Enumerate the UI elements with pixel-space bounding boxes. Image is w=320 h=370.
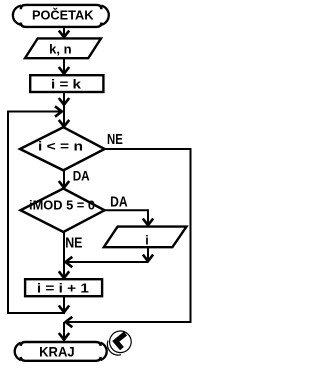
wire to second decision	[63, 170, 65, 187]
svg-text:NE: NE	[65, 235, 82, 252]
wire to k,n	[63, 27, 65, 37]
svg-text:POČETAK: POČETAK	[32, 8, 94, 23]
decision iMOD 5 = 0	[21, 189, 105, 233]
svg-text:KRAJ: KRAJ	[39, 343, 75, 359]
svg-text:i < = n: i < = n	[38, 140, 83, 154]
terminator KRAJ	[15, 342, 107, 361]
NE wire to KRAJ	[59, 149, 191, 340]
svg-text:k, n: k, n	[49, 41, 72, 56]
input k, n	[25, 38, 101, 58]
wire i=k to junction	[63, 92, 65, 112]
svg-text:iMOD 5 = 0: iMOD 5 = 0	[29, 198, 95, 212]
loop-back wire	[8, 106, 69, 313]
svg-text:NE: NE	[107, 131, 123, 148]
node junction above condition	[63, 112, 65, 127]
terminator POCETAK	[13, 5, 109, 27]
output i	[104, 227, 187, 248]
process i = i + 1	[25, 279, 102, 296]
decision i <= n	[20, 127, 105, 170]
wire to i=k	[63, 58, 65, 73]
process i = k	[30, 75, 103, 92]
svg-text:i: i	[145, 233, 148, 247]
svg-text:i = i + 1: i = i + 1	[37, 282, 89, 296]
DA wire to output	[105, 210, 154, 225]
svg-text:DA: DA	[110, 193, 128, 210]
svg-text:i = k: i = k	[51, 77, 81, 91]
icon replay	[107, 331, 131, 355]
wire decision2 to i=i+1	[63, 232, 65, 278]
svg-text:DA: DA	[73, 167, 90, 183]
wire output to merge	[66, 247, 154, 267]
